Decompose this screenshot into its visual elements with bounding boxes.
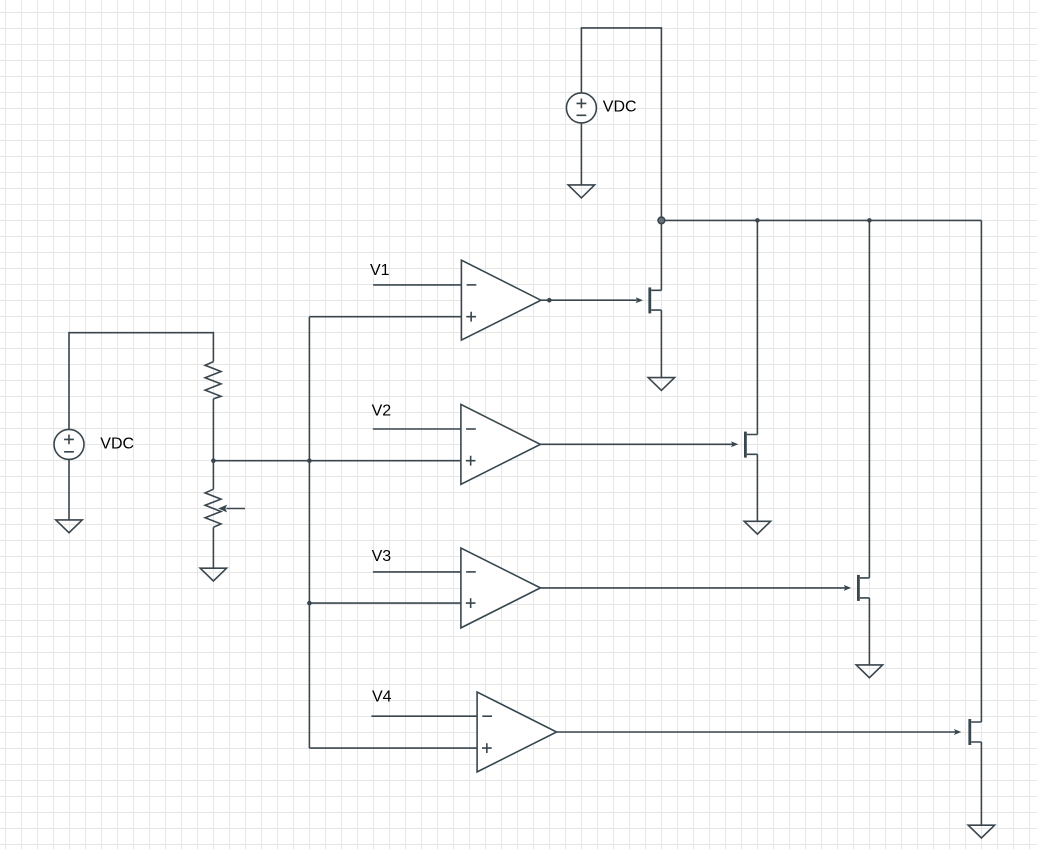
wire left VDC to ground [68,459,70,520]
wire left bus vertical [308,317,310,748]
wire Q4 source to ground [980,742,982,825]
svg-text:VDC: VDC [603,99,637,116]
svg-text:V3: V3 [372,548,392,565]
op-amp U1 [461,260,541,340]
wire node to op-amp2 plus input [213,460,461,462]
ground below Q3 [856,665,882,678]
wire Q3 source to ground [868,598,870,665]
dc source VDC left [54,429,84,459]
node bus at Q3 drain [867,218,872,223]
potentiometer wiper arrow [226,508,245,510]
svg-text:VDC: VDC [100,435,134,452]
ground below left VDC [56,520,82,533]
node resistor tap [211,458,216,463]
resistor R1 [205,362,221,399]
wire Q3 drain to bus [868,220,870,578]
node left bus at op-amp2 [307,458,312,463]
transistor Q4 [968,719,971,745]
wire V1 input [373,284,461,286]
wire left bus to op-amp1 plus [309,316,461,318]
svg-text:V2: V2 [372,402,392,419]
wire left bus to op-amp4 plus [309,747,477,749]
wire Q1 source to ground [660,310,662,378]
wire top VDC up and over to bus [581,28,661,221]
potentiometer R2 [205,489,221,527]
wire op-amp3 output to Q3 gate [540,587,845,589]
dc source VDC top [566,93,596,123]
node left bus at op-amp3 [307,601,312,606]
node bus at Q2 drain [755,218,760,223]
op-amp U4 [477,692,557,772]
transistor Q3 [857,575,860,601]
wire V3 input [373,571,461,573]
wire resistor to potentiometer [212,399,214,489]
node op-amp1 output [547,298,552,303]
wire left bus to op-amp3 plus [309,602,461,604]
wire Q1 drain to bus [660,220,662,290]
wire V2 input [373,428,461,430]
wire Q2 source to ground [756,454,758,521]
wire op-amp2 output to Q2 gate [540,443,732,445]
ground below Q1 [648,378,674,391]
wire potentiometer to ground [212,527,214,568]
ground below Q4 [968,825,994,838]
wire Q2 drain to bus [756,220,758,434]
ground below top VDC [568,185,594,198]
wire right bus drop to Q4 drain [980,220,982,722]
op-amp U3 [461,548,541,628]
svg-text:V4: V4 [372,689,392,706]
wire bus rail [661,219,981,221]
transistor Q2 [744,432,747,458]
transistor Q1 [648,287,651,313]
wire op-amp4 output to Q4 gate [557,731,956,733]
node bus at VDC drop [658,217,665,224]
wire op-amp1 output to Q1 gate [541,299,637,301]
svg-text:V1: V1 [370,262,390,279]
wire top VDC to ground [580,123,582,185]
ground below potentiometer [200,568,226,581]
op-amp U2 [461,404,541,484]
ground below Q2 [744,521,770,534]
wire V4 input [371,715,477,717]
wire left VDC up and over to resistor [69,333,213,430]
